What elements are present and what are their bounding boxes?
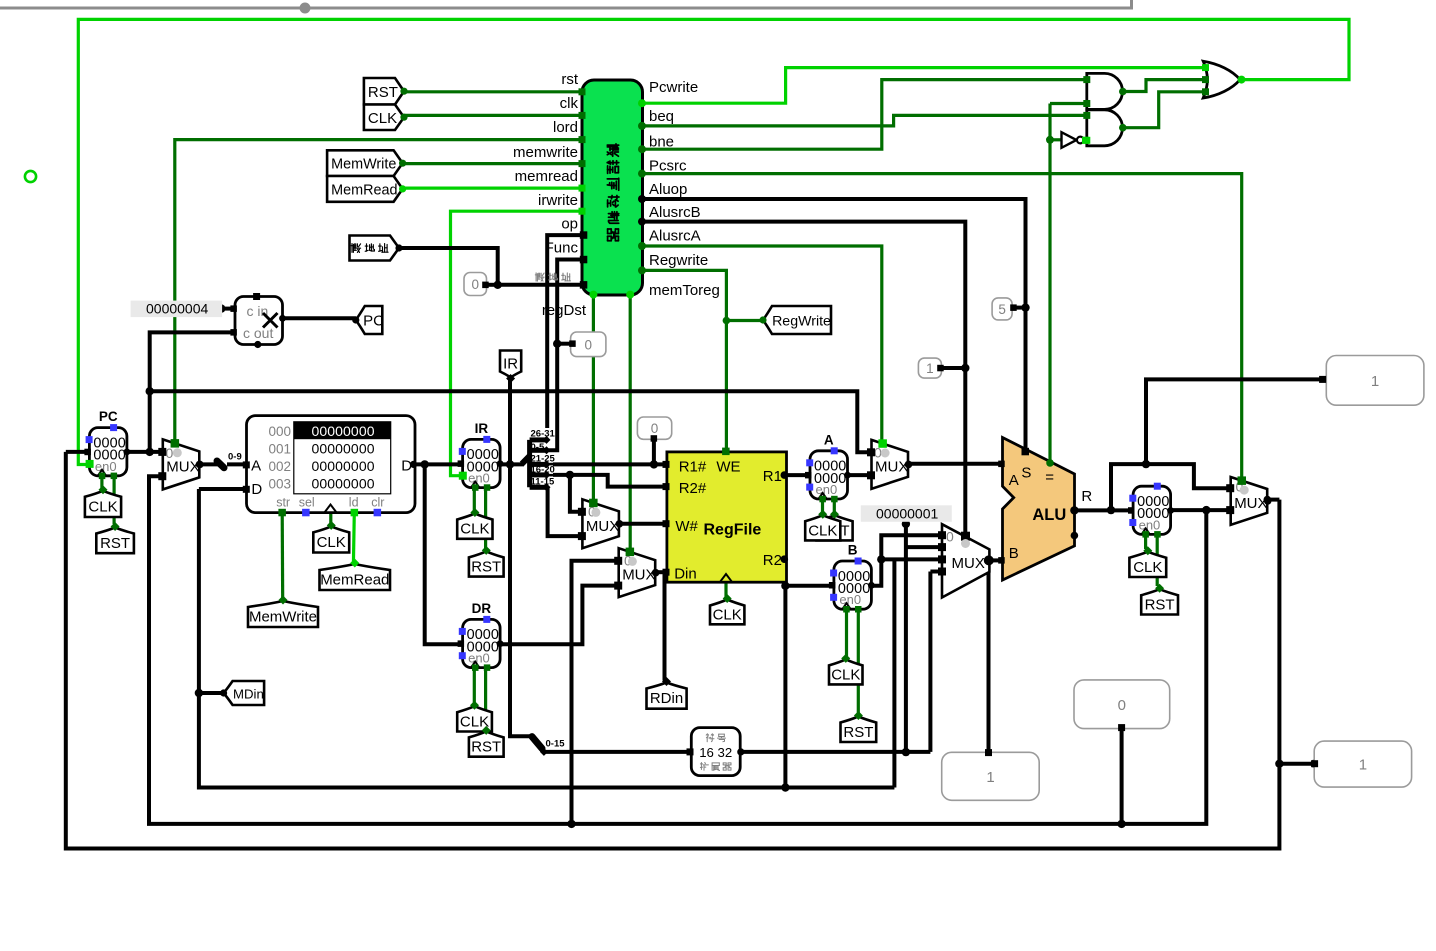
pin ALUreg CLK xyxy=(1129,552,1166,577)
wire RAM D out to IR xyxy=(415,462,463,466)
pin DR RST xyxy=(469,731,504,756)
pin PC RST xyxy=(96,528,134,554)
wire rst xyxy=(403,90,582,93)
svg-text:5: 5 xyxy=(998,302,1006,317)
svg-text:A: A xyxy=(251,458,261,475)
svg-text:1: 1 xyxy=(986,769,994,786)
svg-text:ld: ld xyxy=(349,496,359,510)
wire PC value to MUX4 in0 xyxy=(150,391,872,452)
wire 微地址 input bus xyxy=(398,248,583,285)
wire RAM ld to MemRead xyxy=(352,513,356,566)
junction sign-ext out xyxy=(902,748,910,756)
svg-text:RST: RST xyxy=(1145,596,1175,613)
mux memToreg Din mux xyxy=(619,548,656,597)
svg-text:MemWrite: MemWrite xyxy=(249,609,317,626)
wire writeback bus to PC-mux in1 xyxy=(149,476,1206,824)
svg-text:1: 1 xyxy=(926,361,934,376)
wire IR[11-15] to MUX1 in1 xyxy=(548,487,583,536)
ALU U3 xyxy=(1003,438,1075,581)
wire probe 1 (top right) xyxy=(1146,379,1323,464)
wire ALUreg reset xyxy=(1156,534,1159,586)
svg-text:sel: sel xyxy=(299,496,315,510)
pin IR CLK xyxy=(457,514,492,539)
wire B clock xyxy=(845,609,848,656)
wire to DR input xyxy=(425,464,460,644)
svg-text:MUX: MUX xyxy=(875,458,908,475)
wire const0 to R1# stub xyxy=(652,440,656,464)
svg-text:CLK: CLK xyxy=(317,534,346,551)
svg-text:D: D xyxy=(251,481,262,498)
window frame border xyxy=(0,7,1133,10)
svg-text:MDin: MDin xyxy=(233,687,264,702)
svg-text:RST: RST xyxy=(368,84,398,101)
wire RAM str to MemWrite xyxy=(281,513,285,603)
svg-text:WE: WE xyxy=(716,458,740,475)
svg-text:0-9: 0-9 xyxy=(228,452,242,463)
wire Din to RDin probe xyxy=(663,572,667,680)
wire ALU R to MUX6 in0 xyxy=(1111,464,1231,510)
svg-text:CLK: CLK xyxy=(713,606,742,623)
svg-text:en0: en0 xyxy=(468,651,490,666)
wire immediate to MUX5 in1 xyxy=(906,545,942,549)
constant 0 on Func bus xyxy=(571,332,606,357)
wire const0 stub xyxy=(488,283,498,287)
svg-text:002: 002 xyxy=(269,459,292,474)
probe probe 1 top-right xyxy=(1326,356,1424,406)
wire B to MUX5 in0 xyxy=(871,535,942,586)
wire IR clock xyxy=(473,488,476,512)
svg-text:clk: clk xyxy=(560,95,579,112)
wire const0 stub Func xyxy=(559,342,572,346)
svg-text:R: R xyxy=(1081,488,1092,505)
svg-text:B: B xyxy=(1009,545,1019,562)
splitter 0-9 xyxy=(217,461,224,468)
wire op bus from IR[26-31] xyxy=(547,235,583,437)
svg-text:memwrite: memwrite xyxy=(513,144,578,161)
wire AND2 out to OR xyxy=(1123,92,1204,128)
wire MDin stub xyxy=(199,691,224,695)
splitter IR fields 26-31/0-5/21-25/16-20/11-15 xyxy=(530,428,553,437)
input pin weidizhi address input xyxy=(350,236,400,261)
svg-text:regDst: regDst xyxy=(542,302,587,319)
sign extender 符号16-32扩展器 xyxy=(691,728,740,776)
svg-text:RST: RST xyxy=(471,559,501,576)
wire sign-ext to MUX5 in3 xyxy=(928,572,932,752)
wire probe0 stub xyxy=(1120,729,1124,824)
svg-text:AlusrcB: AlusrcB xyxy=(649,204,701,221)
wire AND1 out to OR xyxy=(1123,80,1204,92)
wire PC Q to PC-mux in0 xyxy=(127,450,163,454)
wire A Q to MUX4 in1 xyxy=(848,473,872,477)
junction writeback to MUX2 in0 xyxy=(567,820,575,828)
wire irwrite to IR en xyxy=(451,211,582,476)
junction 微地址/const0 xyxy=(494,281,502,289)
pin B CLK xyxy=(829,659,863,684)
junction R2 to mem-data xyxy=(781,783,789,791)
constant 0 above R1# xyxy=(637,417,671,439)
svg-text:16-20: 16-20 xyxy=(531,465,555,476)
wire immediate vertical xyxy=(904,524,908,752)
OR gate G4 xyxy=(1203,61,1240,98)
wire MUX5 in3 stub xyxy=(930,570,942,574)
svg-text:RST: RST xyxy=(471,739,501,756)
svg-text:A: A xyxy=(824,432,834,447)
wire DR Q to MUX2 in1 xyxy=(500,586,619,645)
svg-text:B: B xyxy=(848,543,858,558)
svg-text:en0: en0 xyxy=(816,482,838,497)
svg-text:R2: R2 xyxy=(763,552,782,569)
wire const 00000004 to counter c-in xyxy=(221,307,234,311)
wire MUX6 output xyxy=(1268,498,1280,502)
svg-text:MemRead: MemRead xyxy=(320,572,389,589)
svg-text:0: 0 xyxy=(946,529,954,545)
wire bne to AND1 xyxy=(642,80,1087,150)
constant 0 to 微地址 xyxy=(464,273,487,296)
wire IR Q to splitter xyxy=(500,462,524,466)
svg-text:00000000: 00000000 xyxy=(312,458,375,474)
pin A CLK xyxy=(805,515,840,540)
output pin PC pin xyxy=(356,306,383,334)
svg-text:RST: RST xyxy=(100,535,130,552)
wire ALUreg Q to MUX6 in1 xyxy=(1171,508,1231,512)
svg-text:0-5: 0-5 xyxy=(531,442,545,453)
wire IR probe pin xyxy=(508,379,512,465)
wire probe-1 stub xyxy=(1279,762,1314,766)
svg-text:CLK: CLK xyxy=(88,498,117,515)
svg-text:00000000: 00000000 xyxy=(312,441,375,457)
input pin CLK xyxy=(364,105,404,131)
mux AlusrcA mux xyxy=(872,440,909,489)
svg-text:en0: en0 xyxy=(468,471,490,486)
mux Pcsrc mux xyxy=(1231,477,1268,525)
wire A clock xyxy=(821,499,824,516)
wire memread xyxy=(402,187,582,190)
svg-text:MUX: MUX xyxy=(586,518,619,535)
wire RegWrite probe stub xyxy=(726,319,763,322)
svg-text:0: 0 xyxy=(1118,697,1126,714)
input pin MemWrite xyxy=(327,150,403,176)
wire zero to AND1 xyxy=(1050,102,1087,105)
wire PC reset xyxy=(112,476,115,524)
svg-text:1: 1 xyxy=(1371,373,1379,390)
unconnected output pin (green ring) xyxy=(25,171,36,182)
pin RDin probe xyxy=(647,683,687,709)
wire to MUX5 in2 xyxy=(881,557,942,561)
junction IR probe / immediate branch xyxy=(506,460,514,468)
control unit U1 微程序控制器 xyxy=(582,80,643,295)
wire new-PC bus from MUX6 xyxy=(66,452,1280,849)
svg-text:CLK: CLK xyxy=(460,521,489,538)
svg-text:RegFile: RegFile xyxy=(704,522,762,539)
svg-text:Regwrite: Regwrite xyxy=(649,252,708,269)
mux AlusrcB 4-input xyxy=(942,524,989,597)
svg-text:MemWrite: MemWrite xyxy=(331,157,396,173)
pin B RST xyxy=(841,717,877,743)
svg-text:A: A xyxy=(1009,472,1019,489)
wire const5 stub xyxy=(1015,306,1026,310)
svg-text:rst: rst xyxy=(561,71,578,88)
junction probe1 top xyxy=(1142,460,1150,468)
wire DR reset xyxy=(484,668,487,729)
junction writeback probe0 xyxy=(1117,820,1125,828)
svg-text:MUX: MUX xyxy=(622,567,655,584)
junction Func/const0 xyxy=(553,340,561,348)
pin IR RST xyxy=(469,551,504,576)
svg-text:R2#: R2# xyxy=(679,480,707,497)
pin IR probe pin xyxy=(500,351,521,378)
svg-text:str: str xyxy=(276,496,290,510)
wire ALU R to ALUreg xyxy=(1075,508,1132,512)
wire IR to 0-15 splitter xyxy=(510,464,532,736)
wire regDst to MUX1 select xyxy=(592,295,595,502)
svg-text:CLK: CLK xyxy=(368,110,397,127)
value label 00000004 xyxy=(131,301,223,318)
svg-text:000: 000 xyxy=(269,424,292,439)
probe probe 1 PCnext xyxy=(1314,741,1411,787)
svg-text:bne: bne xyxy=(649,134,674,151)
svg-text:00000004: 00000004 xyxy=(146,300,209,316)
junction RAM D / DR branch xyxy=(421,460,429,468)
probe probe 0 writeback xyxy=(1074,680,1170,729)
value label 00000001 xyxy=(861,505,952,522)
svg-text:clr: clr xyxy=(371,496,384,510)
AND gate G1 xyxy=(1087,73,1123,109)
junction zero/NOT xyxy=(1046,136,1054,144)
junction Aluop/const5 xyxy=(1021,303,1029,311)
wire memwrite xyxy=(402,162,582,165)
svg-text:memToreg: memToreg xyxy=(649,282,720,299)
wire Pcsrc to MUX6 select xyxy=(642,174,1242,479)
mux PC source mux xyxy=(163,439,200,489)
wire R2 down xyxy=(784,559,785,787)
pin RAM CLK xyxy=(313,526,349,552)
svg-text:IR: IR xyxy=(503,356,518,373)
wire Aluop bus to ALU S xyxy=(642,199,1026,451)
svg-text:Din: Din xyxy=(674,566,697,583)
svg-text:en0: en0 xyxy=(839,592,861,607)
wire ALU zero flag vertical xyxy=(1048,104,1051,463)
junction PC Q xyxy=(146,448,154,456)
wire R1 to A reg xyxy=(784,473,808,477)
wire A reset xyxy=(833,499,836,517)
wire PC D input xyxy=(66,450,88,454)
wire IR reset xyxy=(484,488,487,549)
wire beq to AND2 xyxy=(642,115,1087,126)
wire ALU B to probe 1 xyxy=(987,560,991,752)
svg-text:lord: lord xyxy=(553,119,578,136)
wire clk xyxy=(403,114,582,117)
svg-text:Func: Func xyxy=(545,240,579,257)
wire PC-mux out to 0-9 splitter xyxy=(199,462,219,466)
wire IR[21-25] to R1# xyxy=(548,462,667,466)
svg-text:Pcwrite: Pcwrite xyxy=(649,79,698,96)
register xyxy=(1133,486,1171,534)
svg-text:MUX: MUX xyxy=(952,555,985,572)
svg-text:0: 0 xyxy=(584,337,592,352)
RAM memory xyxy=(247,416,416,513)
svg-text:00000000: 00000000 xyxy=(312,423,375,439)
wire AlusrcA to MUX4 select xyxy=(642,246,882,444)
svg-text:MemRead: MemRead xyxy=(331,182,397,198)
svg-text:0-15: 0-15 xyxy=(546,739,566,750)
svg-text:CLK: CLK xyxy=(808,522,837,539)
svg-text:00000000: 00000000 xyxy=(312,476,375,492)
svg-text:ALU: ALU xyxy=(1032,506,1066,524)
wire memory write data bus xyxy=(199,489,895,788)
pin PC CLK xyxy=(85,491,121,517)
svg-text:PC: PC xyxy=(363,313,384,330)
pin MemWrite monitor xyxy=(248,601,318,627)
wire RAM clock xyxy=(329,513,332,527)
wire net PCEN (OR out to PC en) xyxy=(78,19,1349,464)
wire PC clock xyxy=(100,476,103,488)
junction label 00000001 xyxy=(902,520,910,528)
svg-text:CLK: CLK xyxy=(1133,559,1162,576)
wire MUX1 out to W# xyxy=(619,522,667,526)
wire B reset xyxy=(857,609,860,717)
svg-text:en0: en0 xyxy=(1139,517,1161,532)
junction label 00000004 xyxy=(217,304,225,312)
junction ALU B node xyxy=(984,556,992,564)
svg-text:en0: en0 xyxy=(95,459,117,474)
svg-text:PC: PC xyxy=(99,409,118,424)
svg-text:R1: R1 xyxy=(763,468,782,485)
wire MUX5 out to ALU B xyxy=(989,558,1001,562)
junction RegWrite probe xyxy=(723,317,731,325)
svg-text:R1#: R1# xyxy=(679,458,707,475)
probe probe 1 ALU B xyxy=(942,752,1039,800)
pin MemRead monitor xyxy=(320,564,391,590)
constant 5 on Aluop xyxy=(992,298,1012,320)
wire counter to PC output pin xyxy=(282,316,356,320)
svg-text:beq: beq xyxy=(649,108,674,125)
wire const1 stub xyxy=(942,366,965,370)
wire Func bus from IR[0-5] xyxy=(548,260,584,451)
svg-text:00000001: 00000001 xyxy=(876,506,939,522)
input pin RST xyxy=(364,78,404,105)
svg-text:irwrite: irwrite xyxy=(538,192,578,209)
wire MUX4 out to ALU A xyxy=(908,462,1001,466)
svg-text:memread: memread xyxy=(515,168,578,185)
wire zero to NOT gate xyxy=(1050,138,1062,141)
wire ALUreg clock xyxy=(1144,534,1147,549)
svg-text:RST: RST xyxy=(843,724,873,741)
junction R1#/const0 xyxy=(650,460,658,468)
wire DR clock xyxy=(473,668,476,704)
wire rt to MUX1 in0 xyxy=(570,475,583,512)
output pin MDin probe xyxy=(224,681,265,705)
svg-text:26-31: 26-31 xyxy=(531,429,556,440)
svg-text:DR: DR xyxy=(472,601,492,616)
svg-text:Aluop: Aluop xyxy=(649,181,687,198)
svg-text:1: 1 xyxy=(1359,757,1367,774)
wire AlusrcB bus to MUX5 select xyxy=(642,222,965,536)
constant 1 on AlusrcB xyxy=(918,358,941,378)
junction ALUreg Q xyxy=(1202,506,1210,514)
wire 0-15 field to sign-extender xyxy=(544,750,688,754)
svg-text:MUX: MUX xyxy=(1234,495,1267,512)
junction R2/B reg xyxy=(781,582,789,590)
wire splitter 0-9 to RAM A xyxy=(227,462,246,466)
wire RegFile clock xyxy=(724,582,727,597)
svg-text:Pcsrc: Pcsrc xyxy=(649,158,687,175)
svg-text:RDin: RDin xyxy=(650,690,683,707)
svg-text:0: 0 xyxy=(471,277,479,292)
junction B value xyxy=(877,555,885,563)
svg-text:c out: c out xyxy=(243,325,273,341)
wire lord to PC-mux select xyxy=(175,140,582,442)
svg-text:21-25: 21-25 xyxy=(531,454,556,465)
svg-text:IR: IR xyxy=(475,421,489,436)
input pin MemRead xyxy=(327,176,403,202)
svg-text:0: 0 xyxy=(651,421,659,436)
wire R2 to B reg xyxy=(785,584,832,588)
output pin RegWrite pin xyxy=(763,306,831,334)
NOT gate G3 xyxy=(1062,132,1077,148)
AND gate G2 xyxy=(1087,110,1123,146)
junction ALU R xyxy=(1107,506,1115,514)
svg-text:W#: W# xyxy=(675,518,698,535)
svg-text:S: S xyxy=(1021,464,1031,481)
svg-text:003: 003 xyxy=(269,477,292,492)
pin ALUreg RST xyxy=(1141,589,1178,614)
junction PCnext probe xyxy=(1275,760,1283,768)
wire Pcwrite to OR gate xyxy=(642,68,1204,104)
RegFile U2 xyxy=(667,452,787,582)
pin DR CLK xyxy=(457,706,492,731)
counter (PC incrementer) xyxy=(235,297,283,345)
wire Regwrite to RegFile WE xyxy=(642,270,726,449)
splitter 0-15 xyxy=(532,737,542,749)
wire counter c-out xyxy=(150,332,234,452)
wire IR[16-20] to R2# xyxy=(548,475,667,487)
svg-text:op: op xyxy=(561,216,578,233)
mux regDst W# mux xyxy=(582,499,619,548)
svg-text:CLK: CLK xyxy=(831,666,860,683)
junction rt field xyxy=(566,471,574,479)
svg-text:AlusrcA: AlusrcA xyxy=(649,228,701,245)
pin A RST xyxy=(817,515,853,540)
junction c-out / AlusrcA path xyxy=(146,387,154,395)
wire sign-extender output xyxy=(740,750,930,754)
junction probe-1 pin xyxy=(1310,760,1318,768)
wire RAM D input xyxy=(199,487,246,491)
svg-text:16 32: 16 32 xyxy=(699,745,732,760)
svg-text:RegWrite: RegWrite xyxy=(772,314,831,330)
wire MUX5 in2 to mem-data bus xyxy=(892,559,896,787)
svg-text:001: 001 xyxy=(269,442,292,457)
wire MUX2 out to Din xyxy=(655,570,666,574)
wire writeback to MUX2 in0 xyxy=(572,561,619,824)
svg-text:11-15: 11-15 xyxy=(531,477,555,488)
wire memToreg to MUX2 select xyxy=(629,295,632,549)
junction AlusrcB/const1 xyxy=(961,364,969,372)
pin RegFile CLK xyxy=(710,600,744,625)
junction MDin probe xyxy=(195,689,203,697)
svg-text:=: = xyxy=(1045,469,1054,486)
